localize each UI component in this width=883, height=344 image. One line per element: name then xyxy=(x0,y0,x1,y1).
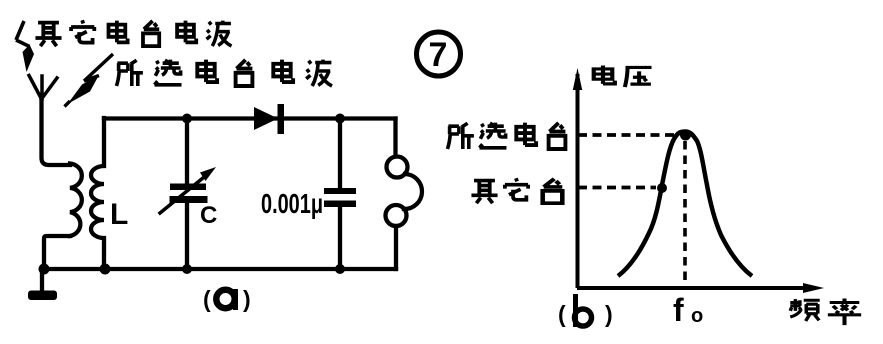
svg-text:o: o xyxy=(691,305,703,327)
svg-text:(: ( xyxy=(203,286,211,312)
svg-text:): ) xyxy=(605,301,613,327)
svg-text:f: f xyxy=(673,292,684,328)
svg-text:L: L xyxy=(110,198,128,231)
svg-text:0.001μ: 0.001μ xyxy=(261,188,323,219)
svg-text:(: ( xyxy=(558,301,566,327)
svg-text:C: C xyxy=(200,202,217,229)
svg-text:): ) xyxy=(243,286,251,312)
svg-text:7: 7 xyxy=(429,36,448,74)
